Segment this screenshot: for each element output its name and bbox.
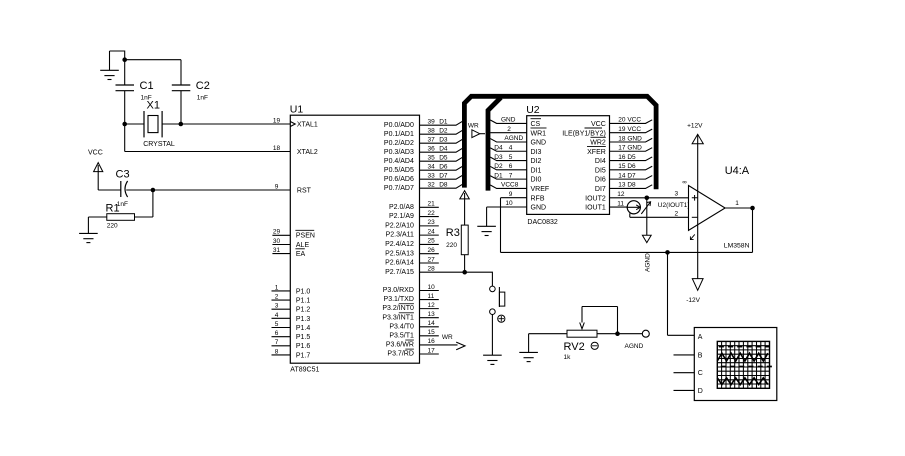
U2 right pin 17 XFER (587, 145, 652, 156)
terminal AGND open circle (625, 330, 650, 350)
svg-text:D: D (698, 388, 703, 395)
oscilloscope screen grid (717, 341, 769, 388)
pin 31 EA (272, 247, 305, 258)
svg-text:36: 36 (428, 146, 436, 153)
pin 9 RST (275, 183, 312, 194)
U2 right pin 16 DI4 (595, 154, 652, 165)
svg-text:P0.0/AD0: P0.0/AD0 (384, 122, 414, 129)
node RV2 wiper junction (615, 331, 620, 336)
svg-text:P2.3/A11: P2.3/A11 (386, 232, 414, 239)
pin 27 P2.6/A14 (385, 256, 439, 266)
svg-text:DI1: DI1 (531, 167, 542, 174)
op-amp U4:A LM358N (682, 134, 750, 278)
power -12V (686, 279, 703, 304)
svg-text:P1.4: P1.4 (296, 325, 311, 332)
svg-text:8: 8 (682, 181, 688, 184)
svg-text:7: 7 (275, 339, 279, 346)
svg-text:D2: D2 (439, 128, 448, 135)
svg-text:18 GND: 18 GND (618, 135, 642, 142)
svg-text:DI2: DI2 (531, 158, 542, 165)
svg-text:P3.2/INT0: P3.2/INT0 (382, 305, 414, 312)
svg-text:P3.6/WR: P3.6/WR (386, 342, 414, 349)
svg-text:WR2: WR2 (590, 140, 606, 147)
svg-text:16: 16 (428, 338, 436, 345)
svg-text:GND: GND (501, 117, 516, 124)
svg-text:22: 22 (428, 210, 436, 217)
svg-text:U2: U2 (526, 104, 540, 116)
svg-text:14 D7: 14 D7 (618, 172, 636, 179)
U2 left pin 1 CS (490, 117, 541, 128)
potentiometer RV2 (529, 307, 643, 361)
svg-text:6: 6 (275, 330, 279, 337)
svg-text:220: 220 (446, 242, 457, 249)
svg-text:2: 2 (275, 293, 279, 300)
wire scope stub D (674, 389, 695, 391)
svg-text:P2.1/A9: P2.1/A9 (389, 213, 414, 220)
pin 12 P3.2/INT0 (382, 302, 438, 312)
wire scope stub B (674, 354, 695, 356)
pin 28 P2.7/A15 (385, 266, 435, 276)
svg-text:15 D6: 15 D6 (618, 163, 636, 170)
svg-text:29: 29 (273, 229, 281, 236)
svg-text:P0.1/AD1: P0.1/AD1 (384, 131, 414, 138)
svg-text:26: 26 (428, 247, 436, 254)
svg-text:16 D5: 16 D5 (618, 154, 636, 161)
pin 1 P1.0 (272, 284, 311, 295)
svg-text:P1.2: P1.2 (296, 307, 311, 314)
svg-text:12: 12 (428, 302, 436, 309)
svg-text:VCC: VCC (591, 121, 606, 128)
oscilloscope trace D triangle wave bottom (717, 378, 768, 385)
svg-text:1: 1 (275, 284, 279, 291)
svg-text:25: 25 (428, 238, 436, 245)
svg-text:6: 6 (509, 163, 513, 170)
svg-text:24: 24 (428, 228, 436, 235)
ground top-left (oscillator) (100, 51, 119, 80)
svg-text:21: 21 (428, 201, 436, 208)
current probe U2(IOUT1) (610, 201, 690, 218)
svg-text:P0.2/AD2: P0.2/AD2 (384, 140, 414, 147)
pin 25 P2.4/A12 (385, 238, 439, 248)
terminal AGND arrow (642, 198, 651, 272)
node WR buffer arrow to U2 WR1 (468, 122, 485, 137)
pin 16 P3.6/WR (386, 334, 465, 350)
pin 22 P2.1/A9 (389, 210, 439, 220)
svg-text:5: 5 (275, 321, 279, 328)
svg-text:3: 3 (275, 303, 279, 310)
svg-text:+12V: +12V (687, 123, 703, 130)
svg-text:13 D8: 13 D8 (618, 182, 636, 189)
pin 14 P3.4/T0 (389, 320, 438, 330)
svg-text:32: 32 (428, 182, 436, 189)
pin 3 P1.2 (272, 303, 311, 314)
svg-text:2: 2 (507, 126, 511, 133)
op oscilloscope body (694, 328, 777, 401)
svg-text:P0.5/AD5: P0.5/AD5 (384, 167, 414, 174)
svg-text:D7: D7 (439, 173, 448, 180)
svg-text:DI3: DI3 (531, 149, 542, 156)
svg-text:P3.5/T1: P3.5/T1 (389, 332, 414, 339)
pin 15 P3.5/T1 (389, 329, 438, 339)
op U1 AT89C51 body (290, 104, 420, 374)
svg-text:U1: U1 (290, 104, 304, 116)
svg-text:P0.7/AD7: P0.7/AD7 (384, 185, 414, 192)
pin 18 XTAL2 (273, 145, 318, 156)
U2 right pin 14 DI6 (595, 172, 652, 183)
node RST junction (151, 188, 156, 193)
pin 24 P2.3/A11 (386, 228, 439, 238)
label C2 value (196, 80, 210, 102)
pin 32 P0.7/AD7 net D8 (384, 182, 463, 192)
wire data bus outer thick (464, 96, 656, 189)
svg-text:D4: D4 (439, 146, 448, 153)
U2 left pin 5 DI2 (490, 154, 541, 165)
node crystal right junction (179, 122, 184, 127)
svg-text:RST: RST (297, 187, 312, 194)
svg-text:DI4: DI4 (595, 158, 606, 165)
pin 29 PSEN (272, 229, 315, 240)
oscilloscope trace A dashes top (719, 346, 770, 348)
svg-text:17 GND: 17 GND (618, 145, 642, 152)
wire data bus inner thick (488, 98, 501, 191)
svg-text:20 VCC: 20 VCC (618, 117, 641, 124)
svg-text:R1: R1 (106, 203, 120, 215)
capacitor C3 (116, 169, 130, 209)
svg-text:2: 2 (675, 210, 679, 217)
svg-text:CRYSTAL: CRYSTAL (143, 141, 175, 148)
wire U2 GND pin10 to ground (486, 207, 488, 226)
svg-text:P1.0: P1.0 (296, 288, 311, 295)
wire crystal row to XTAL1 (125, 123, 291, 125)
svg-text:R3: R3 (446, 227, 460, 239)
pin 38 P0.1/AD1 net D2 (384, 128, 463, 138)
svg-text:9: 9 (509, 191, 513, 198)
label C1 value (140, 80, 154, 102)
svg-text:4: 4 (509, 144, 513, 151)
svg-text:P3.7/RD: P3.7/RD (387, 351, 413, 358)
pin 30 ALE (272, 238, 309, 249)
svg-text:39: 39 (428, 119, 436, 126)
svg-text:U4:A: U4:A (725, 165, 750, 177)
svg-text:19: 19 (273, 118, 281, 125)
RV2 adjust marker (591, 342, 598, 349)
svg-text:18: 18 (273, 145, 281, 152)
power VCC arrow (88, 150, 103, 191)
crystal X1 (143, 100, 175, 149)
svg-text:15: 15 (428, 329, 436, 336)
U2 right pin 19 ILE(BY1/BY2) (562, 126, 652, 137)
svg-text:37: 37 (428, 137, 436, 144)
U2 left pin 7 DI0 (490, 172, 541, 183)
pin 10 P3.0/RXD (383, 284, 439, 294)
svg-text:P2.5/A13: P2.5/A13 (385, 250, 414, 257)
svg-text:P1.5: P1.5 (296, 334, 311, 341)
svg-text:C3: C3 (116, 169, 130, 181)
wire XTAL2 net (125, 124, 291, 152)
svg-text:P1.7: P1.7 (296, 352, 311, 359)
svg-text:P0.6/AD6: P0.6/AD6 (384, 176, 414, 183)
pin 2 P1.1 (272, 293, 311, 304)
U2 left pin 9 RFB (501, 191, 545, 202)
node feedback/scope junction (665, 250, 670, 255)
op U2 DAC0832 body (526, 104, 609, 226)
svg-text:4: 4 (275, 312, 279, 319)
U2 right pin 20 VCC (591, 117, 652, 128)
svg-text:10: 10 (505, 200, 513, 207)
node junction C1 top (122, 57, 127, 62)
svg-text:VREF: VREF (531, 186, 550, 193)
U2 left pin 2 WR1 (490, 126, 546, 137)
svg-text:ALE: ALE (296, 242, 310, 249)
svg-text:27: 27 (428, 256, 436, 263)
U2 right pin 13 DI7 (595, 182, 652, 193)
node crystal left junction (122, 122, 127, 127)
svg-text:D6: D6 (439, 164, 448, 171)
capacitor C2 (172, 60, 191, 124)
svg-text:23: 23 (428, 219, 436, 226)
svg-text:DI0: DI0 (531, 177, 542, 184)
svg-text:P2.6/A14: P2.6/A14 (385, 260, 414, 267)
pin 34 P0.5/AD5 net D6 (384, 164, 463, 174)
svg-text:220: 220 (107, 223, 118, 230)
pin 39 P0.0/AD0 net D1 (384, 119, 463, 129)
wire scope stub C (674, 372, 695, 374)
U2 right pin 11 IOUT1 (585, 200, 624, 211)
resistor R1 (88, 190, 152, 233)
svg-text:WR: WR (468, 122, 479, 129)
svg-text:P1.1: P1.1 (296, 297, 311, 304)
svg-text:IOUT1: IOUT1 (585, 205, 606, 212)
capacitor C1 (116, 60, 135, 124)
svg-text:8: 8 (275, 348, 279, 355)
ground RV2 (519, 334, 538, 362)
svg-text:10: 10 (428, 284, 436, 291)
svg-text:P2.0/A8: P2.0/A8 (389, 204, 414, 211)
svg-text:30: 30 (273, 238, 281, 245)
U2 left pin 4 DI3 (490, 144, 541, 155)
ground U2 (477, 226, 496, 235)
pin 35 P0.4/AD4 net D5 (384, 155, 463, 165)
svg-text:ILE(BY1/BY2): ILE(BY1/BY2) (562, 130, 606, 137)
U2 right pin 18 WR2 (590, 135, 652, 146)
U2 right pin 15 DI5 (595, 163, 652, 174)
svg-text:1: 1 (735, 200, 739, 207)
pin 21 P2.0/A8 (389, 201, 439, 211)
svg-text:P2.7/A15: P2.7/A15 (385, 269, 414, 276)
svg-text:P1.3: P1.3 (296, 316, 311, 323)
svg-text:LM358N: LM358N (724, 242, 750, 249)
wire opamp output (725, 200, 752, 252)
svg-text:XTAL1: XTAL1 (297, 122, 318, 129)
svg-text:P0.4/AD4: P0.4/AD4 (384, 158, 414, 165)
svg-text:D8: D8 (439, 182, 448, 189)
svg-text:5: 5 (509, 154, 513, 161)
U2 left pin 3 GND (490, 135, 546, 146)
wire IOUT2 to opamp + (610, 190, 689, 198)
svg-text:28: 28 (428, 266, 436, 273)
node R3/button junction (462, 270, 467, 275)
svg-text:3: 3 (675, 190, 679, 197)
svg-text:AGND: AGND (625, 343, 644, 350)
wire to oscilloscope input A (668, 252, 695, 335)
svg-text:IOUT2: IOUT2 (585, 195, 606, 202)
svg-text:11: 11 (428, 293, 435, 300)
pin 5 P1.4 (272, 321, 311, 332)
svg-text:VCC: VCC (88, 150, 103, 157)
svg-text:31: 31 (273, 247, 281, 254)
wire U2 RFB feedback drop (500, 198, 502, 253)
svg-text:XFER: XFER (587, 149, 606, 156)
svg-text:D1: D1 (439, 119, 448, 126)
svg-text:17: 17 (428, 347, 436, 354)
pin 7 P1.6 (272, 339, 311, 350)
push button switch (490, 286, 505, 355)
svg-text:P3.4/T0: P3.4/T0 (389, 323, 414, 330)
node output junction (750, 206, 755, 211)
svg-text:19 VCC: 19 VCC (618, 126, 641, 133)
svg-text:A: A (698, 334, 703, 341)
svg-text:1k: 1k (564, 354, 572, 361)
ground R1 (79, 233, 98, 242)
power +12V (687, 123, 703, 144)
svg-text:35: 35 (428, 155, 436, 162)
svg-text:13: 13 (428, 311, 436, 318)
svg-text:EA: EA (296, 251, 306, 258)
svg-text:B: B (698, 352, 703, 359)
wire ground to C1/C2 top rail (110, 51, 182, 60)
svg-text:P1.6: P1.6 (296, 343, 311, 350)
svg-text:7: 7 (509, 172, 513, 179)
U2 left pin 8 VREF (490, 182, 549, 193)
svg-text:D5: D5 (439, 155, 448, 162)
resistor R3 (446, 191, 470, 273)
svg-text:11: 11 (617, 200, 624, 207)
U2 left pin 6 DI1 (490, 163, 541, 174)
svg-text:P0.3/AD3: P0.3/AD3 (384, 149, 414, 156)
svg-text:RV2: RV2 (564, 341, 585, 353)
svg-text:P3.1/TXD: P3.1/TXD (384, 296, 414, 303)
pin 17 P3.7/RD (387, 347, 438, 357)
svg-text:14: 14 (428, 320, 436, 327)
ground pushbutton (483, 355, 502, 364)
pin 36 P0.3/AD3 net D4 (384, 146, 463, 156)
pin 6 P1.5 (272, 330, 311, 341)
U2 right pin 12 IOUT2 (585, 191, 625, 202)
svg-text:P2.4/A12: P2.4/A12 (385, 241, 414, 248)
svg-text:DI6: DI6 (595, 177, 606, 184)
svg-text:34: 34 (428, 164, 436, 171)
oscilloscope trace C dashes middle (721, 366, 772, 368)
svg-text:9: 9 (275, 183, 279, 190)
wire RST net (98, 189, 290, 191)
svg-text:P2.2/A10: P2.2/A10 (385, 222, 414, 229)
pin 26 P2.5/A13 (385, 247, 439, 257)
svg-text:AGND: AGND (645, 253, 652, 272)
svg-text:GND: GND (531, 140, 547, 147)
pin 13 P3.3/INT1 (382, 311, 438, 321)
svg-text:U2(IOUT1): U2(IOUT1) (658, 202, 690, 209)
svg-text:DAC0832: DAC0832 (527, 219, 557, 226)
wire feedback rail to opamp output (501, 251, 753, 253)
svg-text:WR: WR (442, 334, 453, 341)
svg-text:P3.0/RXD: P3.0/RXD (383, 287, 414, 294)
svg-text:GND: GND (531, 205, 547, 212)
oscilloscope trace B triangle wave (717, 353, 768, 361)
svg-text:P3.3/INT1: P3.3/INT1 (382, 314, 414, 321)
svg-text:PSEN: PSEN (296, 233, 315, 240)
pin 37 P0.2/AD2 net D3 (384, 137, 463, 147)
svg-text:WR1: WR1 (531, 130, 547, 137)
svg-text:12: 12 (617, 191, 625, 198)
svg-text:33: 33 (428, 173, 436, 180)
svg-text:DI5: DI5 (595, 167, 606, 174)
pin 11 P3.1/TXD (384, 293, 439, 303)
pin 8 P1.7 (272, 348, 311, 359)
svg-text:C2: C2 (196, 80, 210, 92)
pin 33 P0.6/AD6 net D7 (384, 173, 463, 183)
svg-text:CS: CS (531, 121, 541, 128)
svg-text:DI7: DI7 (595, 186, 606, 193)
wire P2.7 to pushbutton (420, 272, 493, 286)
svg-text:-12V: -12V (686, 297, 700, 304)
svg-text:AT89C51: AT89C51 (290, 367, 319, 374)
svg-text:AGND: AGND (504, 135, 523, 142)
node IOUT2/AGND junction (645, 196, 650, 201)
button actuator marker (498, 315, 505, 322)
pin 19 XTAL1 (273, 118, 318, 129)
svg-text:D3: D3 (439, 137, 448, 144)
U2 left pin 10 GND (487, 200, 546, 211)
svg-text:XTAL2: XTAL2 (297, 149, 318, 156)
svg-text:C: C (698, 370, 703, 377)
svg-text:X1: X1 (147, 100, 160, 112)
svg-text:VCC8: VCC8 (501, 182, 519, 189)
svg-text:1nF: 1nF (197, 95, 208, 102)
pin 23 P2.2/A10 (385, 219, 439, 229)
svg-text:38: 38 (428, 128, 436, 135)
svg-text:RFB: RFB (531, 195, 545, 202)
pin 4 P1.3 (272, 312, 311, 323)
svg-text:C1: C1 (140, 80, 154, 92)
